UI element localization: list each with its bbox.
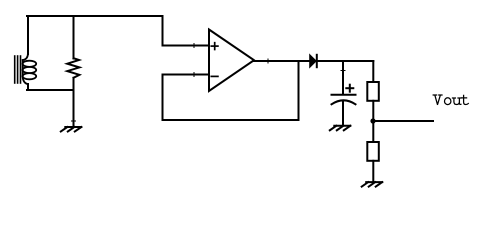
pin tick bbox=[341, 70, 345, 72]
capacitor C1 bbox=[332, 85, 356, 105]
wire R3 to ground bbox=[372, 161, 374, 181]
wire capacitor top lead bbox=[342, 61, 344, 94]
resistor R3 bbox=[367, 142, 379, 161]
wire resistor bottom lead bbox=[73, 78, 75, 90]
wire resistor branch drop from top bbox=[73, 16, 75, 59]
wire coil bottom lead bbox=[27, 84, 29, 90]
wire right branch vertical top bbox=[372, 61, 374, 82]
pin tick bbox=[193, 44, 195, 48]
pin tick bbox=[193, 73, 195, 77]
inductor L1 bbox=[15, 53, 36, 84]
wire op-amp output bbox=[254, 60, 310, 62]
ground bbox=[61, 127, 82, 132]
wire between R2 and R3 bbox=[372, 101, 374, 142]
wire to Vout bbox=[373, 120, 433, 122]
pin tick bbox=[267, 59, 269, 63]
wire capacitor bottom lead bbox=[342, 101, 344, 125]
pin tick bbox=[72, 120, 76, 122]
wire feedback loop output to inverting input bbox=[163, 61, 299, 120]
node A junction dot bbox=[370, 118, 375, 123]
resistor R1 bbox=[67, 58, 79, 78]
ground bbox=[330, 126, 351, 131]
wire diode to right branch bbox=[316, 60, 373, 62]
diode D1 bbox=[310, 55, 317, 67]
wire ground stem left bbox=[73, 90, 75, 126]
wire top horizontal bbox=[27, 15, 163, 17]
wire tank bottom bbox=[27, 89, 74, 91]
wire from top to noninverting input bbox=[163, 16, 210, 46]
label Vout bbox=[433, 95, 468, 105]
resistor R2 bbox=[367, 82, 379, 101]
op-amp U1 bbox=[209, 30, 254, 92]
ground bbox=[362, 182, 383, 187]
wire tank top-left vertical bbox=[27, 16, 29, 54]
